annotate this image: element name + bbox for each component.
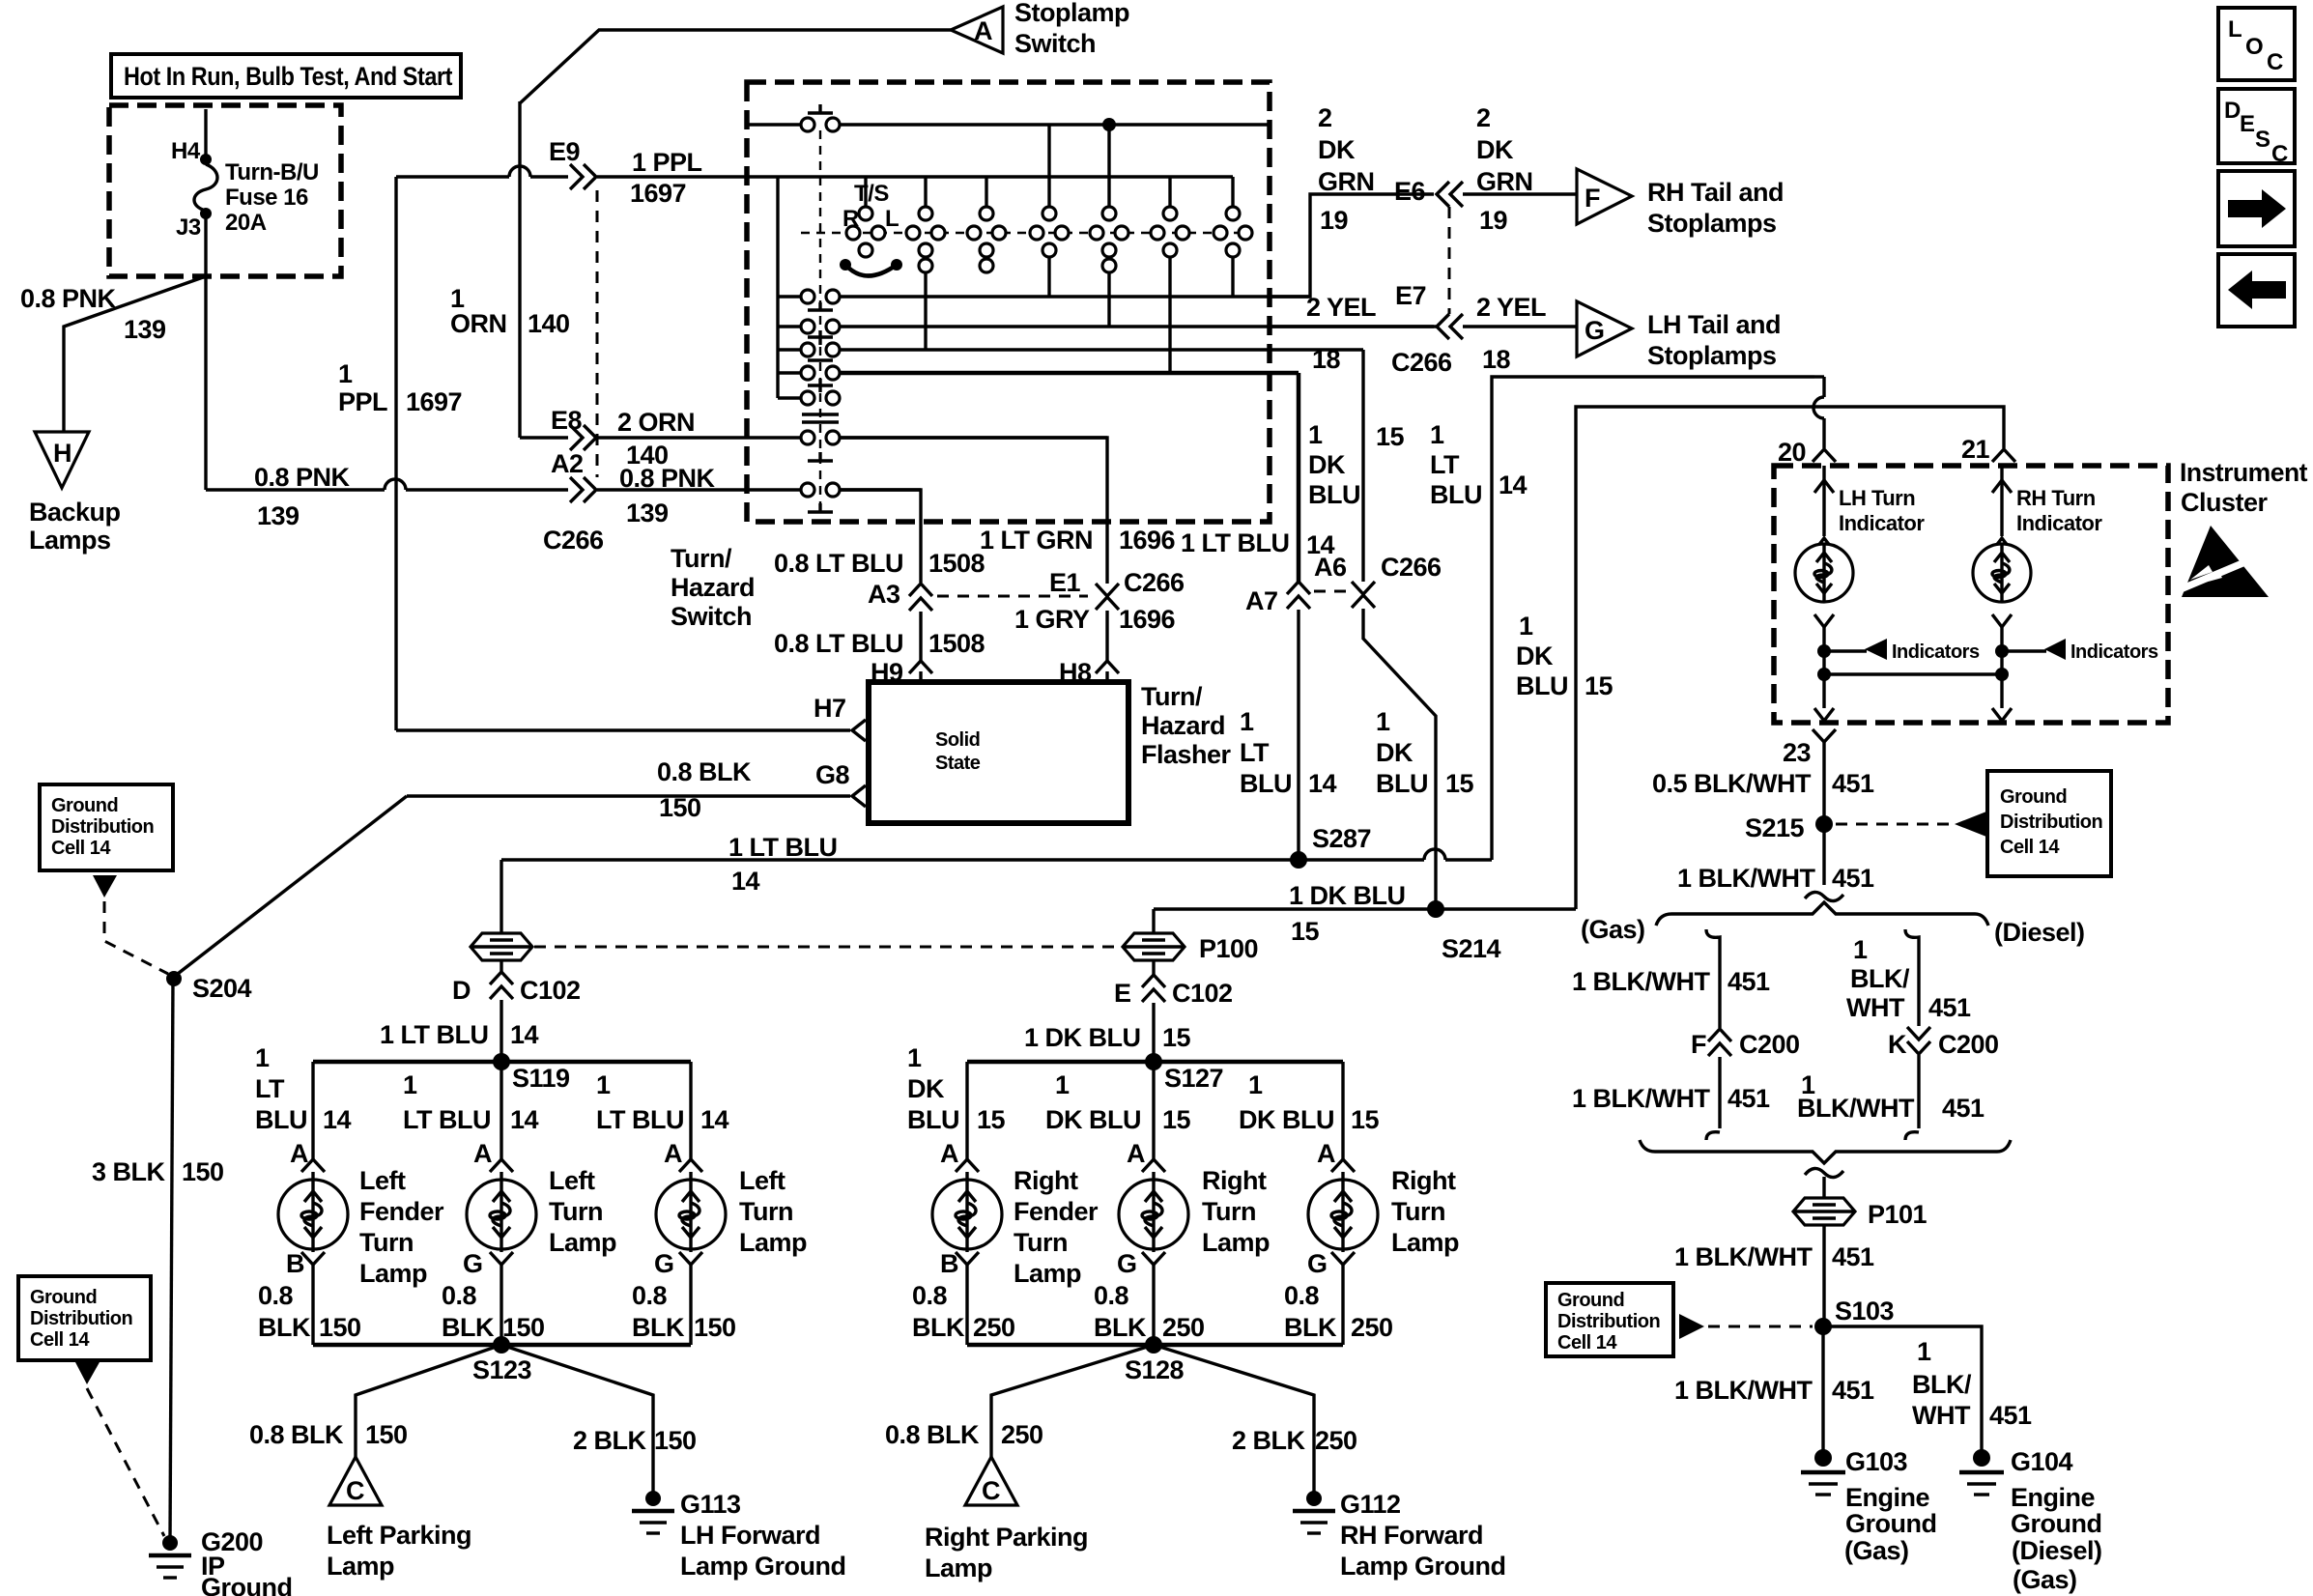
- wire: 0.8 PNK 139 fuse to A2 (hop over 1 PPL): [206, 463, 568, 530]
- svg-text:1: 1: [907, 1043, 922, 1072]
- svg-text:Lamp: Lamp: [327, 1552, 394, 1581]
- svg-text:451: 451: [1832, 769, 1874, 798]
- svg-text:14: 14: [1499, 470, 1528, 499]
- svg-text:A2: A2: [551, 449, 584, 478]
- svg-text:Right: Right: [1014, 1166, 1078, 1195]
- svg-text:LT BLU: LT BLU: [403, 1105, 491, 1134]
- node H4: [200, 154, 212, 165]
- svg-text:1 BLK/WHT: 1 BLK/WHT: [1674, 1242, 1813, 1271]
- wire: 1 PPL to flasher H7: [396, 728, 850, 731]
- wire: 0.8 PNK 139 into switch: [597, 464, 747, 527]
- svg-text:BLU: BLU: [907, 1105, 959, 1134]
- svg-text:1 LT GRN: 1 LT GRN: [980, 526, 1093, 555]
- svg-text:Fender: Fender: [359, 1197, 444, 1226]
- svg-text:(Gas): (Gas): [1581, 915, 1645, 944]
- wire: 1 BLK/WHT 451 to S103: [1674, 1225, 1874, 1324]
- svg-text:Ground: Ground: [1845, 1509, 1936, 1538]
- contact cluster x1086: [1030, 125, 1069, 297]
- wire: 2 YEL 18 to G: [1463, 293, 1577, 374]
- svg-text:G: G: [1585, 316, 1605, 345]
- svg-text:150: 150: [319, 1313, 361, 1342]
- svg-text:Instrument: Instrument: [2180, 458, 2307, 487]
- svg-text:0.8: 0.8: [632, 1281, 668, 1310]
- brace split gas/diesel: [1581, 902, 2085, 947]
- svg-text:Ground: Ground: [2011, 1509, 2101, 1538]
- svg-text:20A: 20A: [225, 210, 267, 236]
- svg-text:S123: S123: [472, 1355, 532, 1384]
- svg-text:1: 1: [255, 1043, 270, 1072]
- svg-text:Distribution: Distribution: [30, 1308, 132, 1329]
- svg-text:Lamp: Lamp: [925, 1553, 992, 1582]
- lamp LH Turn Indicator: [1795, 466, 1925, 645]
- svg-text:1: 1: [1376, 707, 1390, 736]
- left lamp wire labels: [255, 1043, 736, 1342]
- wire: diesel branch to K C200: [1846, 929, 1971, 1026]
- switch contact row r2: [778, 320, 1437, 333]
- svg-text:2 BLK: 2 BLK: [1232, 1426, 1306, 1455]
- prev arrow box: [2218, 254, 2295, 327]
- wire: fuse output down: [204, 218, 207, 490]
- svg-text:H: H: [53, 439, 71, 468]
- svg-text:BLK: BLK: [1284, 1313, 1337, 1342]
- svg-text:15: 15: [1445, 769, 1474, 798]
- svg-text:(Gas): (Gas): [2013, 1565, 2077, 1594]
- svg-text:S119: S119: [512, 1064, 570, 1093]
- wire: 1 LT BLU 14 switch row to A7: [1181, 373, 1335, 582]
- svg-text:(Diesel): (Diesel): [1994, 918, 2085, 947]
- svg-text:BLK: BLK: [442, 1313, 495, 1342]
- svg-text:L: L: [885, 206, 899, 232]
- svg-text:0.8: 0.8: [912, 1281, 948, 1310]
- connector C266 dashed link A3-E1: [937, 595, 1088, 598]
- ground G103: [1801, 1447, 1936, 1565]
- svg-text:C: C: [2267, 49, 2283, 75]
- svg-text:P100: P100: [1199, 934, 1258, 963]
- wire: 1 LT BLU 14 A7 to S287: [1240, 610, 1337, 860]
- svg-text:Engine: Engine: [1845, 1483, 1929, 1512]
- svg-text:A: A: [664, 1139, 682, 1168]
- svg-text:1 BLK/WHT: 1 BLK/WHT: [1677, 864, 1815, 893]
- svg-text:3 BLK: 3 BLK: [92, 1157, 166, 1186]
- wire cluster internal link: [1824, 672, 2002, 675]
- svg-text:139: 139: [626, 499, 669, 527]
- connector C200 K chevrons: [1888, 1027, 1999, 1059]
- off-page connector F: [1577, 169, 1632, 224]
- svg-text:A: A: [290, 1139, 308, 1168]
- right lamp wire labels: [907, 1043, 1393, 1342]
- svg-text:G8: G8: [815, 760, 850, 789]
- svg-text:1 BLK/WHT: 1 BLK/WHT: [1674, 1376, 1813, 1405]
- svg-text:250: 250: [1315, 1426, 1357, 1455]
- svg-text:C: C: [2271, 141, 2288, 167]
- svg-text:C266: C266: [543, 526, 604, 555]
- wire: 1 DK BLU 15 to S127: [1024, 1003, 1191, 1062]
- svg-text:1: 1: [1430, 420, 1444, 449]
- svg-text:0.8 PNK: 0.8 PNK: [20, 284, 117, 313]
- svg-text:451: 451: [1832, 864, 1874, 893]
- svg-text:Cell 14: Cell 14: [51, 838, 111, 859]
- wire: 1 PPL 1697 riser: [338, 177, 462, 730]
- svg-text:Turn: Turn: [1202, 1197, 1256, 1226]
- svg-text:1 BLK/WHT: 1 BLK/WHT: [1572, 967, 1710, 996]
- wire: 2 DK GRN 19 from switch to E6: [1269, 103, 1434, 297]
- svg-text:BLU: BLU: [255, 1105, 307, 1134]
- svg-text:1: 1: [403, 1070, 417, 1099]
- svg-text:Stoplamp: Stoplamp: [1014, 0, 1129, 27]
- svg-text:G104: G104: [2011, 1447, 2073, 1476]
- wire: 1 PPL into switch box: [597, 148, 747, 208]
- svg-text:15: 15: [1585, 671, 1613, 700]
- pin H9: [871, 658, 932, 687]
- svg-text:Lamps: Lamps: [29, 526, 111, 555]
- svg-text:Left Parking: Left Parking: [327, 1521, 471, 1550]
- svg-text:G: G: [1117, 1249, 1137, 1278]
- svg-text:L: L: [2228, 16, 2242, 43]
- lamp: Left Turn Lamp (2): [656, 1062, 726, 1345]
- T/S switch contact clusters: [801, 232, 1246, 234]
- wire: 1 BLK/WHT 451 S103 to G104: [1823, 1326, 2032, 1453]
- svg-text:14: 14: [323, 1105, 352, 1134]
- connector C266 dashed link E9-E8-A2: [596, 190, 599, 477]
- connector E6 chevrons: [1394, 177, 1463, 207]
- wire: 1 BLK/WHT 451 below S215: [1677, 827, 1874, 893]
- dashed link to ground distribution: [1836, 812, 1986, 837]
- wire: 1 GRY 1696 E1 to H8: [1014, 605, 1176, 661]
- LH exit chevron: [1814, 708, 1834, 721]
- wire: 3 BLK 150 S204 to G200: [92, 979, 224, 1540]
- svg-text:BLK/: BLK/: [1850, 964, 1910, 993]
- svg-text:Lamp: Lamp: [1014, 1259, 1081, 1288]
- connector A2 chevrons: [543, 449, 604, 555]
- wire: 1 ORN 140 vertical: [450, 101, 570, 438]
- svg-text:S103: S103: [1835, 1297, 1895, 1325]
- svg-text:LH Tail and: LH Tail and: [1647, 310, 1781, 339]
- svg-text:Switch: Switch: [671, 602, 752, 631]
- svg-text:451: 451: [1728, 967, 1770, 996]
- svg-text:ORN: ORN: [450, 309, 507, 338]
- svg-text:14: 14: [510, 1105, 539, 1134]
- svg-text:1 LT BLU: 1 LT BLU: [728, 833, 838, 862]
- svg-text:2 YEL: 2 YEL: [1476, 293, 1546, 322]
- wire: 1 DK BLU 15 main run S214: [1154, 881, 1576, 946]
- svg-text:451: 451: [1989, 1401, 2032, 1430]
- svg-text:BLK: BLK: [912, 1313, 965, 1342]
- svg-text:T/S: T/S: [854, 181, 889, 207]
- svg-text:0.8 PNK: 0.8 PNK: [254, 463, 351, 492]
- svg-text:250: 250: [1351, 1313, 1393, 1342]
- svg-text:15: 15: [1291, 917, 1320, 946]
- svg-text:2: 2: [1476, 103, 1491, 132]
- svg-text:BLU: BLU: [1240, 769, 1292, 798]
- svg-text:14: 14: [510, 1020, 539, 1049]
- wire: 1 PPL 1697 to E9 (hop over 1 ORN): [396, 166, 568, 177]
- svg-text:BLU: BLU: [1376, 769, 1428, 798]
- svg-text:LH Turn: LH Turn: [1839, 486, 1915, 510]
- svg-text:DK: DK: [1318, 135, 1356, 164]
- svg-text:R: R: [842, 206, 859, 232]
- wire: 0.8 BLK 250 to right parking lamp: [885, 1345, 1154, 1457]
- svg-text:Indicator: Indicator: [1839, 511, 1925, 535]
- svg-text:C: C: [346, 1476, 364, 1505]
- Turn/Hazard Flasher box: [869, 682, 1128, 823]
- node J3: [200, 208, 212, 219]
- Turn/Hazard Switch dashed box: [747, 82, 1270, 522]
- svg-text:E7: E7: [1395, 281, 1426, 310]
- svg-text:Ground: Ground: [201, 1573, 292, 1596]
- wire: 1 LT BLU 14 to S119: [380, 1000, 539, 1062]
- svg-text:1696: 1696: [1119, 605, 1176, 634]
- svg-text:1: 1: [596, 1070, 611, 1099]
- grommet P100 left lens: [471, 933, 532, 960]
- svg-text:BLU: BLU: [1430, 480, 1482, 509]
- wire: 0.8 BLK 150 G8 to S204: [174, 757, 850, 977]
- svg-text:451: 451: [1728, 1084, 1770, 1113]
- svg-text:LT: LT: [1240, 738, 1270, 767]
- svg-text:14: 14: [700, 1105, 729, 1134]
- svg-text:BLK: BLK: [1094, 1313, 1147, 1342]
- svg-text:1: 1: [1248, 1070, 1263, 1099]
- pin H8: [1059, 658, 1119, 687]
- svg-text:Lamp Ground: Lamp Ground: [680, 1552, 846, 1581]
- svg-text:E8: E8: [551, 406, 583, 435]
- svg-text:1 PPL: 1 PPL: [632, 148, 702, 177]
- svg-text:Turn/: Turn/: [1141, 682, 1203, 711]
- svg-text:Fender: Fender: [1014, 1197, 1099, 1226]
- svg-text:Turn-B/U: Turn-B/U: [225, 159, 319, 185]
- svg-text:C266: C266: [1381, 553, 1442, 582]
- wire: 2 YEL 18 from switch to E7: [1269, 293, 1434, 374]
- svg-text:Cell 14: Cell 14: [2000, 837, 2060, 858]
- svg-text:F: F: [1691, 1030, 1706, 1059]
- connector C102 D chevrons: [452, 972, 581, 1005]
- svg-text:250: 250: [973, 1313, 1015, 1342]
- node RH lower: [1995, 668, 2009, 681]
- arrow from box to S204: [93, 875, 168, 974]
- svg-text:0.5 BLK/WHT: 0.5 BLK/WHT: [1652, 769, 1812, 798]
- wire: 0.8 LT BLU 1508 switch to A3: [774, 490, 985, 583]
- wire: fuse feed from top: [204, 109, 207, 155]
- svg-text:A: A: [940, 1139, 958, 1168]
- svg-text:Cell 14: Cell 14: [1557, 1332, 1617, 1354]
- wire label 1 LT BLU 14 riser: [1430, 420, 1528, 509]
- svg-text:2 YEL: 2 YEL: [1306, 293, 1376, 322]
- svg-text:Engine: Engine: [2011, 1483, 2095, 1512]
- svg-text:1: 1: [1519, 612, 1533, 641]
- contact cluster x1211: [1151, 177, 1189, 373]
- svg-text:20: 20: [1778, 438, 1806, 467]
- node S287: [1290, 824, 1371, 869]
- svg-text:0.8: 0.8: [1094, 1281, 1129, 1310]
- svg-text:Left: Left: [549, 1166, 595, 1195]
- node S127 and right lamp bus: [967, 1053, 1343, 1093]
- wire: 1 DK BLU 15 switch row to A6: [1308, 350, 1405, 582]
- svg-text:0.8 LT BLU: 0.8 LT BLU: [774, 629, 903, 658]
- svg-text:Ground: Ground: [1557, 1290, 1624, 1311]
- wire: gas branch below F: [1572, 1057, 1770, 1140]
- grommet P100 right lens: [1123, 933, 1258, 963]
- svg-text:Turn: Turn: [1391, 1197, 1445, 1226]
- svg-text:RH Tail and: RH Tail and: [1647, 178, 1784, 207]
- lamp: Left Turn Lamp (1): [467, 1062, 536, 1345]
- wire: switch internal top bus: [747, 104, 1269, 131]
- svg-text:15: 15: [977, 1105, 1006, 1134]
- ground G104: [1959, 1447, 2102, 1594]
- svg-text:RH Forward: RH Forward: [1340, 1521, 1483, 1550]
- svg-text:E9: E9: [549, 137, 581, 166]
- contact cluster x896: [846, 177, 885, 257]
- svg-text:15: 15: [1162, 1105, 1191, 1134]
- svg-text:RH Turn: RH Turn: [2016, 486, 2096, 510]
- connector C200 F chevrons: [1691, 1029, 1800, 1059]
- svg-text:A7: A7: [1245, 586, 1278, 615]
- svg-text:Right: Right: [1391, 1166, 1456, 1195]
- svg-text:BLK/: BLK/: [1912, 1370, 1972, 1399]
- svg-text:H4: H4: [171, 138, 201, 164]
- svg-text:1: 1: [338, 359, 353, 388]
- svg-text:1 LT BLU: 1 LT BLU: [1181, 528, 1290, 557]
- svg-text:S204: S204: [192, 974, 252, 1003]
- svg-text:S127: S127: [1164, 1064, 1223, 1093]
- wire: 0.5 BLK/WHT 451: [1652, 742, 1874, 821]
- svg-text:14: 14: [731, 867, 760, 896]
- svg-text:DK: DK: [1308, 450, 1346, 479]
- svg-text:S214: S214: [1442, 934, 1501, 963]
- switch contact row r5: [778, 391, 840, 405]
- wire: 0.8 LT BLU 1508 A3 to H9: [774, 612, 985, 661]
- svg-text:G113: G113: [680, 1490, 741, 1519]
- node S204: [166, 971, 252, 1003]
- connector A3 chevrons: [868, 580, 932, 611]
- svg-text:D: D: [452, 976, 471, 1005]
- svg-text:B: B: [286, 1249, 304, 1278]
- svg-text:451: 451: [1928, 993, 1971, 1022]
- pin H7: [814, 694, 866, 741]
- svg-text:E6: E6: [1394, 177, 1426, 206]
- svg-text:23: 23: [1783, 738, 1812, 767]
- svg-text:K: K: [1888, 1030, 1907, 1059]
- Ground Distribution Cell 14 box bottom: [1546, 1283, 1673, 1356]
- node S103: [1814, 1297, 1895, 1335]
- node S128 and right ground bus: [967, 1336, 1343, 1384]
- svg-text:1508: 1508: [928, 629, 985, 658]
- svg-text:Stoplamps: Stoplamps: [1647, 209, 1777, 238]
- arrow from box to S103: [1679, 1314, 1813, 1339]
- svg-text:DK BLU: DK BLU: [1045, 1105, 1141, 1134]
- connector C266 dashed link A7-A6: [1314, 590, 1351, 593]
- pin G8: [815, 760, 866, 807]
- svg-text:250: 250: [1001, 1420, 1043, 1449]
- ground G200: [149, 1527, 292, 1596]
- svg-text:Indicators: Indicators: [1892, 641, 1980, 663]
- svg-text:Right: Right: [1202, 1166, 1267, 1195]
- wire: 1 DK BLU 15 A6 to S214: [1363, 609, 1474, 909]
- svg-text:19: 19: [1320, 206, 1349, 235]
- arrow from box to G200: [75, 1362, 164, 1536]
- svg-text:0.8 LT BLU: 0.8 LT BLU: [774, 549, 903, 578]
- off-page connector A stoplamp switch: [951, 7, 1003, 53]
- svg-text:Hazard: Hazard: [671, 573, 755, 602]
- svg-text:Lamp: Lamp: [1202, 1228, 1270, 1257]
- wire: gas branch to F C200: [1572, 929, 1770, 1028]
- LH Indicators arrow: [1817, 639, 1980, 663]
- lamp: Right Turn Lamp (1): [1119, 1062, 1188, 1345]
- svg-text:O: O: [2245, 34, 2263, 60]
- off-page connector H: [35, 432, 89, 488]
- svg-text:150: 150: [694, 1313, 736, 1342]
- svg-text:Left: Left: [359, 1166, 406, 1195]
- svg-text:150: 150: [365, 1420, 408, 1449]
- svg-text:1 DK BLU: 1 DK BLU: [1289, 881, 1406, 910]
- svg-text:0.8: 0.8: [258, 1281, 294, 1310]
- svg-text:0.8: 0.8: [1284, 1281, 1320, 1310]
- svg-text:LT: LT: [255, 1074, 285, 1103]
- svg-text:LT BLU: LT BLU: [596, 1105, 684, 1134]
- T/S labels and wiper: [840, 181, 1116, 276]
- svg-text:Solid: Solid: [935, 729, 980, 751]
- svg-text:A: A: [1317, 1139, 1335, 1168]
- svg-text:150: 150: [654, 1426, 697, 1455]
- wire: to stoplamp switch: [520, 30, 951, 103]
- svg-text:1 BLK/WHT: 1 BLK/WHT: [1572, 1084, 1710, 1113]
- right lamp name labels: [1014, 1166, 1459, 1288]
- svg-text:G: G: [463, 1249, 483, 1278]
- svg-text:A6: A6: [1314, 553, 1347, 582]
- svg-text:1697: 1697: [630, 179, 686, 208]
- fuse block dashed box: [109, 105, 341, 276]
- switch contact row r6: [747, 431, 1107, 444]
- svg-text:F: F: [1585, 184, 1600, 213]
- svg-text:A3: A3: [868, 580, 900, 609]
- svg-text:0.8 BLK: 0.8 BLK: [249, 1420, 344, 1449]
- pin 23: [1783, 729, 1836, 767]
- ground G113: [632, 1490, 846, 1581]
- wire break squiggle lower: [1805, 1168, 1843, 1177]
- wire: 1 PPL internal bus: [747, 177, 1233, 398]
- svg-text:2: 2: [1318, 103, 1332, 132]
- svg-text:A: A: [473, 1139, 492, 1168]
- connector A7 chevrons: [1245, 582, 1310, 615]
- node S123 and left ground bus: [313, 1336, 691, 1384]
- svg-text:GRN: GRN: [1318, 167, 1375, 196]
- svg-text:Cluster: Cluster: [2181, 488, 2269, 517]
- svg-text:GRN: GRN: [1476, 167, 1533, 196]
- svg-text:Indicators: Indicators: [2070, 641, 2158, 663]
- svg-text:0.8 BLK: 0.8 BLK: [885, 1420, 980, 1449]
- connector E1 chevrons: [1049, 568, 1185, 610]
- contact cluster x1148: [1090, 125, 1128, 327]
- off-page connector G: [1577, 301, 1632, 356]
- ground G112: [1293, 1490, 1506, 1581]
- off-page connector C left parking lamp: [329, 1457, 382, 1505]
- svg-text:1: 1: [1917, 1337, 1931, 1366]
- switch contact row r1: [778, 290, 1310, 303]
- lamp: Left Fender Turn Lamp: [278, 1062, 348, 1345]
- svg-text:Right Parking: Right Parking: [925, 1523, 1088, 1552]
- switch gang marks: [802, 302, 839, 512]
- svg-text:G112: G112: [1340, 1490, 1401, 1519]
- svg-text:B: B: [940, 1249, 958, 1278]
- svg-text:S287: S287: [1312, 824, 1371, 853]
- svg-text:Ground: Ground: [2000, 786, 2067, 808]
- svg-text:1: 1: [1308, 420, 1323, 449]
- Ground Distribution Cell 14 box right: [1987, 771, 2111, 876]
- svg-text:S215: S215: [1745, 813, 1805, 842]
- pin 20: [1778, 438, 1836, 467]
- wire: 2 BLK 250 to G112: [1154, 1345, 1357, 1493]
- svg-text:(Diesel): (Diesel): [2012, 1536, 2102, 1565]
- svg-text:WHT: WHT: [1846, 993, 1905, 1022]
- svg-text:DK: DK: [907, 1074, 945, 1103]
